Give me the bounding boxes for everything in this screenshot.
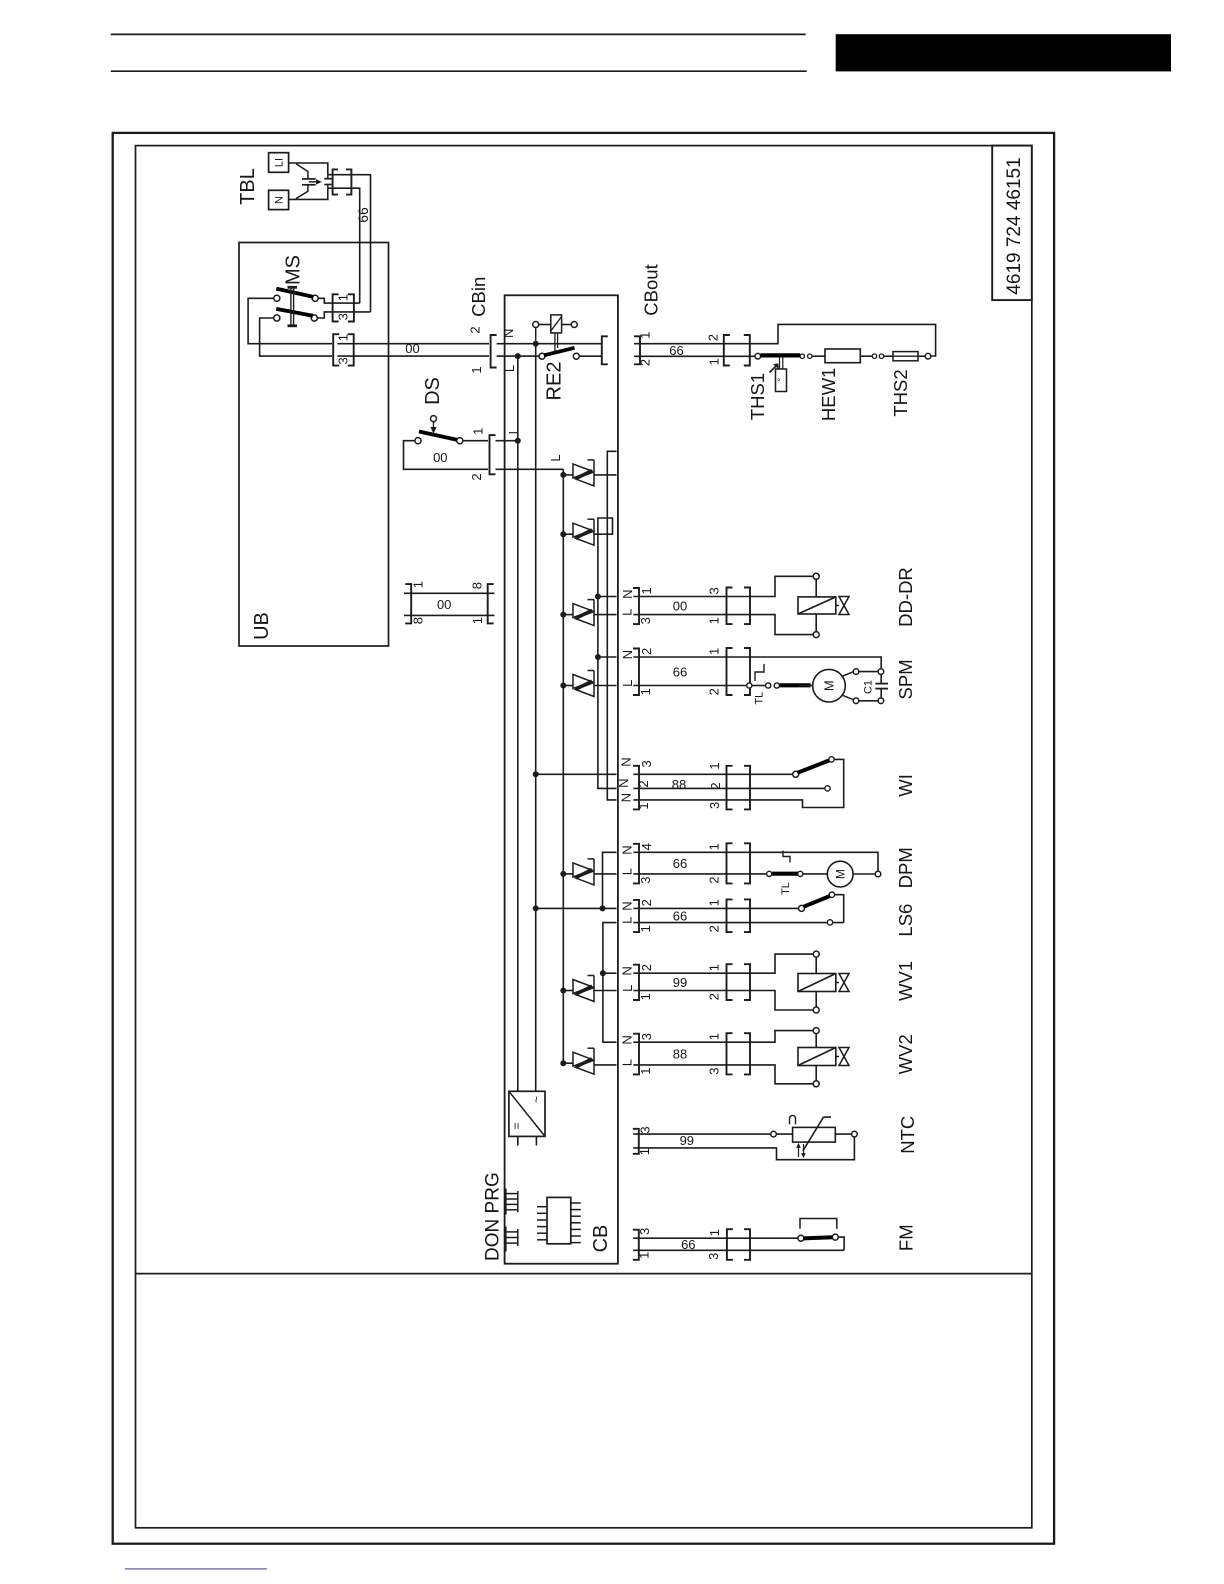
connector CBout heater (pins 1,2) bbox=[634, 332, 652, 367]
svg-text:3: 3 bbox=[638, 617, 653, 624]
svg-text:3: 3 bbox=[639, 760, 654, 767]
wire DD-DR N branch bbox=[595, 594, 617, 600]
svg-text:RE2: RE2 bbox=[544, 362, 566, 401]
redacted title block (black bar) bbox=[836, 34, 1171, 71]
connector MS lower (pins 1,3) bbox=[333, 334, 354, 366]
power supply module U1 bbox=[509, 1091, 545, 1145]
svg-text:WV2: WV2 bbox=[895, 1034, 916, 1074]
svg-text:N: N bbox=[273, 196, 285, 204]
svg-text:3: 3 bbox=[707, 1067, 722, 1074]
svg-text:4619 724 46151: 4619 724 46151 bbox=[1004, 157, 1025, 294]
connector WV1 component side bbox=[707, 964, 750, 1000]
wire DS pin2 loop bbox=[404, 441, 489, 470]
svg-text:2: 2 bbox=[707, 688, 722, 695]
triac T7 bbox=[560, 1048, 594, 1074]
svg-text:1: 1 bbox=[707, 648, 722, 655]
wire pair NTC cable 99 bbox=[633, 1133, 854, 1160]
connector MS upper (pins 1,3) bbox=[333, 294, 354, 322]
svg-text:TL: TL bbox=[753, 692, 765, 705]
label MS bbox=[283, 255, 305, 285]
label FM bbox=[895, 1224, 916, 1251]
svg-text:HEW1: HEW1 bbox=[818, 368, 839, 421]
connector CBout row WV1 bbox=[620, 964, 654, 1000]
svg-text:M: M bbox=[833, 869, 847, 879]
svg-text:3: 3 bbox=[637, 1126, 652, 1133]
svg-text:88: 88 bbox=[673, 1047, 687, 1062]
relay RE2 coil bbox=[533, 315, 578, 352]
svg-text:2: 2 bbox=[639, 899, 654, 906]
wire pair FM cable 66 bbox=[633, 1237, 844, 1252]
svg-text:L: L bbox=[620, 680, 635, 687]
connector LS6 component side bbox=[707, 899, 750, 932]
svg-text:1: 1 bbox=[707, 617, 722, 624]
connector CBout board half (heater, pins 1,2) bbox=[602, 336, 608, 364]
wire triac T1 output to board edge bbox=[594, 474, 617, 476]
svg-text:LI: LI bbox=[273, 158, 285, 167]
capacitor C1 bbox=[750, 657, 888, 704]
wire pair SPM with cable code 66 bbox=[633, 657, 750, 686]
svg-text:L: L bbox=[620, 609, 635, 616]
wire pair WV2 with cable code 88 bbox=[633, 1042, 750, 1065]
svg-text:8: 8 bbox=[410, 617, 425, 624]
wire pair heater cable 66 bbox=[634, 343, 750, 358]
switch MS pole 1 bbox=[274, 289, 319, 302]
svg-text:3: 3 bbox=[336, 313, 351, 320]
motor SPM bbox=[799, 669, 878, 704]
svg-text:1: 1 bbox=[637, 1252, 652, 1259]
svg-text:N: N bbox=[620, 966, 635, 975]
door switch DS bbox=[415, 416, 463, 444]
wire DPM N riser bbox=[600, 852, 617, 911]
drain valve DD-DR bbox=[750, 573, 849, 637]
wire triac T3 output bbox=[594, 614, 617, 616]
wire triple WI cable 88 bbox=[633, 774, 750, 800]
label UB bbox=[251, 612, 273, 640]
svg-text:L: L bbox=[502, 365, 517, 372]
svg-text:1: 1 bbox=[336, 334, 351, 341]
svg-text:1: 1 bbox=[638, 688, 653, 695]
svg-text:TBL: TBL bbox=[237, 168, 259, 205]
wire triac T5 output bbox=[594, 873, 617, 875]
connector CBout row LS6 bbox=[620, 899, 654, 932]
connector heater component side (pins 2,1) bbox=[705, 334, 749, 366]
svg-text:1: 1 bbox=[639, 587, 654, 594]
svg-text:L: L bbox=[620, 917, 635, 924]
thermistor NTC bbox=[771, 1115, 858, 1157]
svg-text:UB: UB bbox=[251, 612, 273, 640]
connector WV2 component side bbox=[707, 1033, 750, 1075]
svg-text:N: N bbox=[618, 757, 633, 766]
svg-text:3: 3 bbox=[637, 1228, 652, 1235]
label L bbox=[506, 427, 521, 434]
header rule bottom bbox=[111, 70, 807, 72]
svg-text:L: L bbox=[620, 985, 635, 992]
svg-text:3: 3 bbox=[706, 1253, 721, 1260]
svg-text:MS: MS bbox=[283, 255, 305, 285]
label DON PRG bbox=[482, 1172, 503, 1261]
svg-text:°: ° bbox=[776, 377, 786, 381]
label SPM bbox=[895, 659, 916, 699]
svg-text:1: 1 bbox=[638, 1067, 653, 1074]
connector PRG bbox=[506, 1227, 518, 1252]
heater HEW1 bbox=[812, 349, 872, 363]
wire TBL pin2 down to MS block bbox=[328, 188, 360, 303]
wire pair LS6 with cable code 66 bbox=[633, 908, 750, 923]
connector CBout row SPM bbox=[620, 648, 654, 696]
triac T2 bbox=[560, 519, 594, 545]
cable code 00 bbox=[433, 450, 447, 465]
connector NTC (pins 3,1) bbox=[633, 1126, 653, 1155]
label THS2 bbox=[890, 369, 911, 416]
cable code 66 bbox=[355, 207, 371, 223]
water valve WV2 bbox=[750, 1028, 849, 1087]
UB block outline bbox=[239, 243, 389, 647]
terminal N box bbox=[269, 190, 289, 209]
motor DPM bbox=[750, 852, 881, 887]
wire rail C (WI pin3 riser) bbox=[607, 451, 616, 800]
svg-text:M: M bbox=[822, 680, 837, 691]
svg-text:00: 00 bbox=[673, 599, 687, 614]
svg-text:66: 66 bbox=[673, 664, 687, 679]
svg-text:2: 2 bbox=[705, 334, 720, 341]
connector DS (pins 1,2) bbox=[469, 428, 496, 481]
wire UB to CBin line L bbox=[337, 355, 489, 357]
wire N rail bbox=[535, 344, 537, 1092]
label WV2 bbox=[895, 1034, 916, 1074]
svg-text:3: 3 bbox=[707, 587, 722, 594]
svg-text:L: L bbox=[620, 1059, 635, 1066]
svg-text:WI: WI bbox=[895, 774, 916, 797]
wire heater loop top bbox=[750, 324, 936, 356]
connector CBout row DD-DR bbox=[620, 587, 654, 624]
svg-text:88: 88 bbox=[672, 777, 686, 792]
svg-text:1: 1 bbox=[470, 428, 485, 435]
part number box 4619 724 46151 bbox=[992, 146, 1032, 301]
label N bbox=[501, 329, 516, 338]
svg-text:3: 3 bbox=[638, 876, 653, 883]
svg-text:DD-DR: DD-DR bbox=[895, 567, 916, 627]
svg-text:L: L bbox=[620, 868, 635, 875]
svg-text:2: 2 bbox=[639, 964, 654, 971]
svg-text:NTC: NTC bbox=[897, 1116, 918, 1154]
wire DS pin2 to triac rail bbox=[496, 468, 564, 470]
wire MS pole2 left leg bbox=[260, 318, 332, 356]
thermal fuse THS2 bbox=[872, 352, 931, 361]
thermal protector TL bbox=[746, 664, 810, 705]
wire MS pole1 to connector bbox=[318, 298, 359, 303]
svg-text:1: 1 bbox=[707, 899, 722, 906]
svg-text:1: 1 bbox=[707, 1033, 722, 1040]
label L bbox=[502, 365, 517, 372]
svg-text:DS: DS bbox=[422, 377, 444, 405]
label CBin bbox=[468, 277, 489, 317]
label NTC bbox=[897, 1116, 918, 1154]
svg-text:99: 99 bbox=[673, 975, 687, 990]
wire TBL pin1 down to MS block bbox=[328, 175, 371, 312]
svg-text:~: ~ bbox=[530, 1096, 544, 1103]
thermal protector TL bbox=[750, 851, 803, 895]
svg-text:00: 00 bbox=[433, 450, 447, 465]
svg-text:N: N bbox=[620, 1035, 635, 1044]
label DD-DR bbox=[895, 567, 916, 627]
svg-text:THS2: THS2 bbox=[890, 369, 911, 416]
svg-text:SPM: SPM bbox=[895, 659, 916, 699]
svg-text:N: N bbox=[616, 779, 631, 788]
svg-text:1: 1 bbox=[707, 843, 722, 850]
svg-text:1: 1 bbox=[636, 802, 651, 809]
connector WI component side bbox=[707, 762, 750, 809]
header rule top bbox=[111, 33, 806, 35]
svg-text:66: 66 bbox=[669, 343, 683, 358]
wire WI pin1 from N rail bbox=[533, 771, 617, 777]
wire from N to filter bbox=[289, 185, 328, 200]
svg-text:TL: TL bbox=[780, 882, 792, 895]
svg-text:1: 1 bbox=[638, 925, 653, 932]
wire triac T4 output bbox=[594, 685, 617, 687]
connector FM board side (pins 3,1) bbox=[633, 1228, 652, 1260]
svg-text:1: 1 bbox=[411, 581, 426, 588]
wire L rail bbox=[517, 356, 519, 1091]
connector DD-DR component side bbox=[707, 587, 750, 624]
svg-text:=: = bbox=[510, 1122, 524, 1129]
connector DON bbox=[506, 1189, 518, 1215]
frame separator line above notes area bbox=[136, 1273, 1032, 1275]
svg-text:1: 1 bbox=[637, 1148, 652, 1155]
svg-text:1: 1 bbox=[470, 617, 485, 624]
wire pair DD-DR with cable code 00 bbox=[633, 597, 750, 615]
outer border frame bbox=[113, 133, 1054, 1544]
triac T5 bbox=[560, 859, 594, 885]
label RE2 bbox=[544, 362, 566, 401]
svg-text:THS1: THS1 bbox=[747, 373, 768, 420]
svg-text:3: 3 bbox=[639, 1033, 654, 1040]
flow meter switch FM bbox=[750, 1219, 844, 1251]
svg-text:1: 1 bbox=[706, 358, 721, 365]
cable code 00 bbox=[405, 341, 419, 356]
svg-text:4: 4 bbox=[639, 843, 654, 850]
connector TBL (2-pin) bbox=[333, 169, 352, 194]
svg-text:66: 66 bbox=[673, 909, 687, 924]
label LS6 bbox=[895, 904, 916, 937]
svg-text:2: 2 bbox=[469, 473, 484, 480]
label THS1 bbox=[747, 373, 768, 420]
svg-text:2: 2 bbox=[707, 876, 722, 883]
svg-text:N: N bbox=[618, 793, 633, 802]
label L bbox=[548, 454, 563, 461]
svg-text:8: 8 bbox=[469, 582, 484, 589]
triac T3 bbox=[560, 600, 594, 626]
svg-text:C1: C1 bbox=[862, 680, 874, 694]
connector CBout row DPM bbox=[620, 843, 654, 884]
water valve WV1 bbox=[750, 951, 849, 1013]
svg-text:66: 66 bbox=[355, 207, 371, 223]
svg-text:99: 99 bbox=[680, 1133, 694, 1148]
level switch LS6 bbox=[750, 892, 844, 925]
connector DPM component side bbox=[707, 843, 750, 884]
svg-text:2: 2 bbox=[639, 648, 654, 655]
X capacitor bbox=[324, 175, 331, 189]
svg-text:2: 2 bbox=[708, 782, 723, 789]
svg-text:00: 00 bbox=[437, 597, 451, 612]
connector UB 8-pole (pins 1/8, 8/1) bbox=[404, 581, 495, 624]
connector CBout row WV2 bbox=[620, 1033, 654, 1075]
svg-text:66: 66 bbox=[673, 856, 687, 871]
svg-text:1: 1 bbox=[707, 964, 722, 971]
triac T6 bbox=[560, 976, 594, 1002]
svg-text:CBin: CBin bbox=[468, 277, 489, 317]
connector FM mid (pins 1,3) bbox=[706, 1229, 750, 1260]
connector CBout row WI bbox=[616, 757, 654, 809]
svg-text:1: 1 bbox=[638, 993, 653, 1000]
svg-text:LS6: LS6 bbox=[895, 904, 916, 937]
svg-text:00: 00 bbox=[405, 341, 419, 356]
label WV1 bbox=[895, 961, 916, 1001]
wire CBin L into board bbox=[497, 353, 542, 359]
wire triac T2 output riser to rail B bbox=[594, 518, 617, 788]
pressure switch WI bbox=[750, 757, 844, 808]
wire SPM N branch bbox=[595, 654, 617, 660]
svg-text:1: 1 bbox=[707, 1229, 722, 1236]
svg-text:L: L bbox=[506, 427, 521, 434]
label HEW1 bbox=[818, 368, 839, 421]
svg-text:N: N bbox=[620, 901, 635, 910]
wire LS6 pin1 / WV riser rail bbox=[600, 923, 617, 1043]
triac T1 bbox=[560, 460, 594, 486]
label DPM bbox=[895, 847, 916, 888]
relay RE2 contact bbox=[539, 348, 602, 359]
label WI bbox=[895, 774, 916, 797]
svg-text:2: 2 bbox=[468, 326, 483, 333]
wire triac T6 output bbox=[594, 990, 617, 992]
wire DS pin1 bbox=[463, 440, 488, 442]
label CB bbox=[590, 1225, 612, 1253]
svg-text:3: 3 bbox=[707, 802, 722, 809]
wire pair DPM with cable code 66 bbox=[633, 852, 750, 874]
svg-text:WV1: WV1 bbox=[895, 961, 916, 1001]
connector CBin (pins 2,1) bbox=[468, 326, 497, 373]
wire LS6 pin2 from N rail bbox=[533, 905, 617, 911]
svg-text:1: 1 bbox=[469, 366, 484, 373]
svg-text:2: 2 bbox=[707, 925, 722, 932]
label CBout bbox=[640, 264, 661, 315]
label DS bbox=[422, 377, 444, 405]
svg-text:CB: CB bbox=[590, 1225, 612, 1253]
wire UB to CBin line N bbox=[337, 343, 489, 345]
svg-text:1: 1 bbox=[336, 294, 351, 301]
wire MS pole1 left leg bbox=[248, 298, 332, 343]
wire MS pole2 to connector bbox=[318, 312, 371, 318]
connector SPM component side bbox=[707, 648, 750, 696]
svg-text:CBout: CBout bbox=[640, 264, 661, 315]
microcontroller IC2 bbox=[537, 1197, 581, 1243]
svg-text:2: 2 bbox=[636, 780, 651, 787]
svg-text:1: 1 bbox=[707, 762, 722, 769]
switch MS pole 2 bbox=[274, 309, 318, 321]
wire from LI to filter bbox=[289, 163, 328, 179]
svg-text:L: L bbox=[548, 454, 563, 461]
filter capacitor C bbox=[302, 179, 316, 185]
svg-text:66: 66 bbox=[681, 1237, 695, 1252]
svg-text:N: N bbox=[620, 845, 635, 854]
svg-text:DON PRG: DON PRG bbox=[482, 1172, 503, 1261]
svg-text:3: 3 bbox=[336, 357, 351, 364]
wire pair WV1 with cable code 99 bbox=[633, 973, 750, 990]
wire WV1 N branch bbox=[603, 972, 617, 974]
inner border frame bbox=[136, 146, 1032, 1528]
footer link underline bbox=[125, 1568, 267, 1570]
wire triac T7 output bbox=[594, 1064, 617, 1066]
label TBL bbox=[237, 168, 259, 205]
control board CB outline bbox=[505, 295, 618, 1263]
svg-text:N: N bbox=[620, 650, 635, 659]
triac T4 bbox=[560, 671, 594, 697]
wire DS pin1 to L rail bbox=[496, 438, 521, 444]
svg-text:FM: FM bbox=[895, 1224, 916, 1251]
wire triac supply rail bbox=[562, 469, 564, 1063]
terminal LI box bbox=[269, 153, 289, 173]
wire CBin N into board bbox=[497, 341, 602, 347]
thermal switch THS1 bbox=[750, 353, 812, 391]
svg-text:2: 2 bbox=[707, 993, 722, 1000]
svg-text:N: N bbox=[620, 590, 635, 599]
spark-gap arrow bbox=[309, 180, 321, 184]
svg-text:N: N bbox=[501, 329, 516, 338]
svg-text:DPM: DPM bbox=[895, 847, 916, 888]
MS mechanical link bbox=[288, 287, 298, 326]
